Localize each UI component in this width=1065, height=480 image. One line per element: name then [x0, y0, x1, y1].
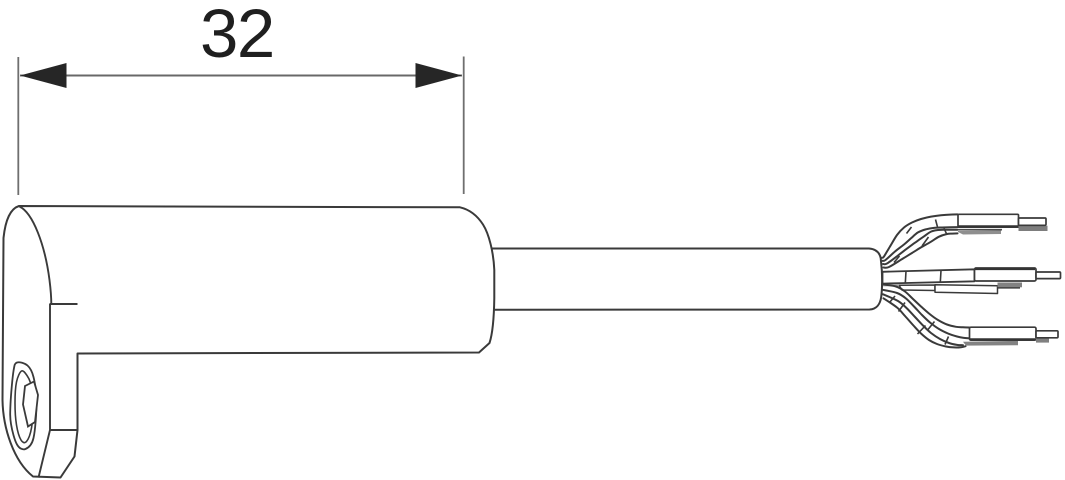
wire 5 twist marks	[899, 303, 935, 330]
wire 5 upper strand of bottom pair	[882, 284, 970, 327]
dimension extension line left	[17, 57, 19, 195]
ferrule of wire 3	[975, 268, 1037, 281]
ferrule of wire 5	[970, 327, 1037, 340]
wire 4 hidden strand	[899, 285, 935, 291]
ferrule of wire 1	[958, 214, 1019, 227]
wire 6 upper edge	[883, 294, 963, 345]
wire 6 lower strand of bottom pair	[884, 298, 966, 347]
wire 3 middle strand	[883, 269, 975, 283]
wire 5 lower edge	[883, 290, 970, 339]
pin of wire 1	[1019, 226, 1048, 231]
bracket front face	[39, 304, 78, 478]
sensor body silhouette	[3, 206, 495, 478]
wire 4 hidden ferrule	[998, 283, 1023, 288]
wire 3 twist marks	[905, 270, 941, 283]
wire 2 twist marks	[894, 228, 947, 262]
wire 6 shadow band under ferrule	[963, 341, 1018, 346]
hex socket	[23, 382, 38, 427]
wire 2 hidden ferrule edge	[958, 229, 1002, 231]
pin of wire 3	[1036, 272, 1061, 279]
hole outer contour	[10, 362, 36, 449]
cable	[488, 249, 882, 310]
pin of wire 5	[1036, 338, 1049, 342]
svg-text:32: 32	[200, 0, 274, 72]
dimension extension line right	[463, 57, 465, 195]
wire 2 lower strand edge	[884, 233, 958, 267]
hole chamfer contour	[15, 371, 33, 443]
wire 2 upper edge	[883, 230, 958, 264]
wire 1 twist marks	[907, 220, 938, 234]
wire 1 upper strand top edge	[882, 214, 958, 257]
wire 6 twist marks	[890, 296, 949, 345]
dimension arrow left	[20, 63, 67, 88]
dimension line	[20, 75, 462, 77]
dimension arrow right	[416, 63, 463, 88]
wire 1 lower edge	[883, 227, 958, 261]
sensor dome silhouette edge	[20, 207, 52, 305]
